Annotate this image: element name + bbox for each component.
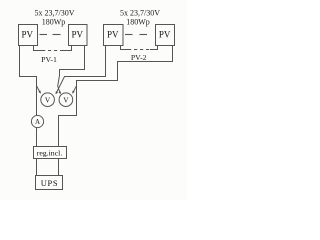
svg-text:180Wp: 180Wp (126, 17, 150, 26)
arrowhead of V1 left probe (38, 91, 41, 94)
svg-text:V: V (45, 96, 51, 105)
PV panel 1 of string PV-1 (19, 25, 38, 46)
wire probe branch into voltmeter V1 left side (37, 86, 41, 93)
svg-text:PV: PV (22, 29, 34, 39)
svg-text:5x 23,7/30V: 5x 23,7/30V (120, 8, 160, 17)
svg-text:PV: PV (107, 29, 119, 39)
svg-text:5x 23,7/30V: 5x 23,7/30V (35, 8, 75, 17)
ellipsis dashes for omitted PV-1 panels (40, 34, 48, 36)
wire regulator to UPS left (36, 159, 38, 176)
wire PV-1 right terminal staircase to voltmeter V2 probe (58, 46, 85, 94)
wire PV-2 right terminal staircase down to charge regulator (59, 46, 173, 147)
svg-text:PV: PV (159, 29, 171, 39)
wire PV-2 left terminal staircase to voltmeter V1 probe (56, 46, 106, 94)
svg-text:PV-2: PV-2 (131, 53, 147, 62)
arrowhead of V2 left probe (58, 91, 60, 94)
wire PV-1 left terminal down and over to ammeter branch (20, 46, 37, 116)
wire ammeter to charge regulator (36, 128, 38, 147)
PV panel 5 of string PV-2 (156, 25, 175, 46)
PV panel 5 of string PV-1 (69, 25, 88, 46)
wire probe branch into voltmeter V2 right side (73, 86, 77, 93)
svg-text:reg.incl.: reg.incl. (37, 149, 63, 158)
svg-text:UPS: UPS (41, 179, 58, 188)
voltmeter V1 (41, 93, 55, 107)
UPS box (36, 176, 63, 190)
series bus wire of string PV-1 with dashed middle (34, 46, 43, 51)
svg-text:A: A (35, 118, 40, 126)
arrowhead of V2 right probe (72, 91, 75, 94)
svg-text:V: V (63, 96, 69, 105)
series bus wire of string PV-2 with dashed middle (121, 46, 129, 50)
ellipsis dashes for omitted PV-2 panels (125, 34, 133, 36)
svg-text:PV: PV (71, 29, 83, 39)
arrowhead of V1 right probe (56, 91, 58, 94)
PV panel 1 of string PV-2 (104, 25, 124, 46)
wire regulator to UPS right (58, 159, 60, 176)
charge regulator box (34, 147, 67, 159)
svg-text:180Wp: 180Wp (42, 17, 66, 26)
ammeter A (31, 115, 43, 127)
voltmeter V2 (59, 93, 73, 107)
svg-text:PV-1: PV-1 (41, 55, 57, 64)
